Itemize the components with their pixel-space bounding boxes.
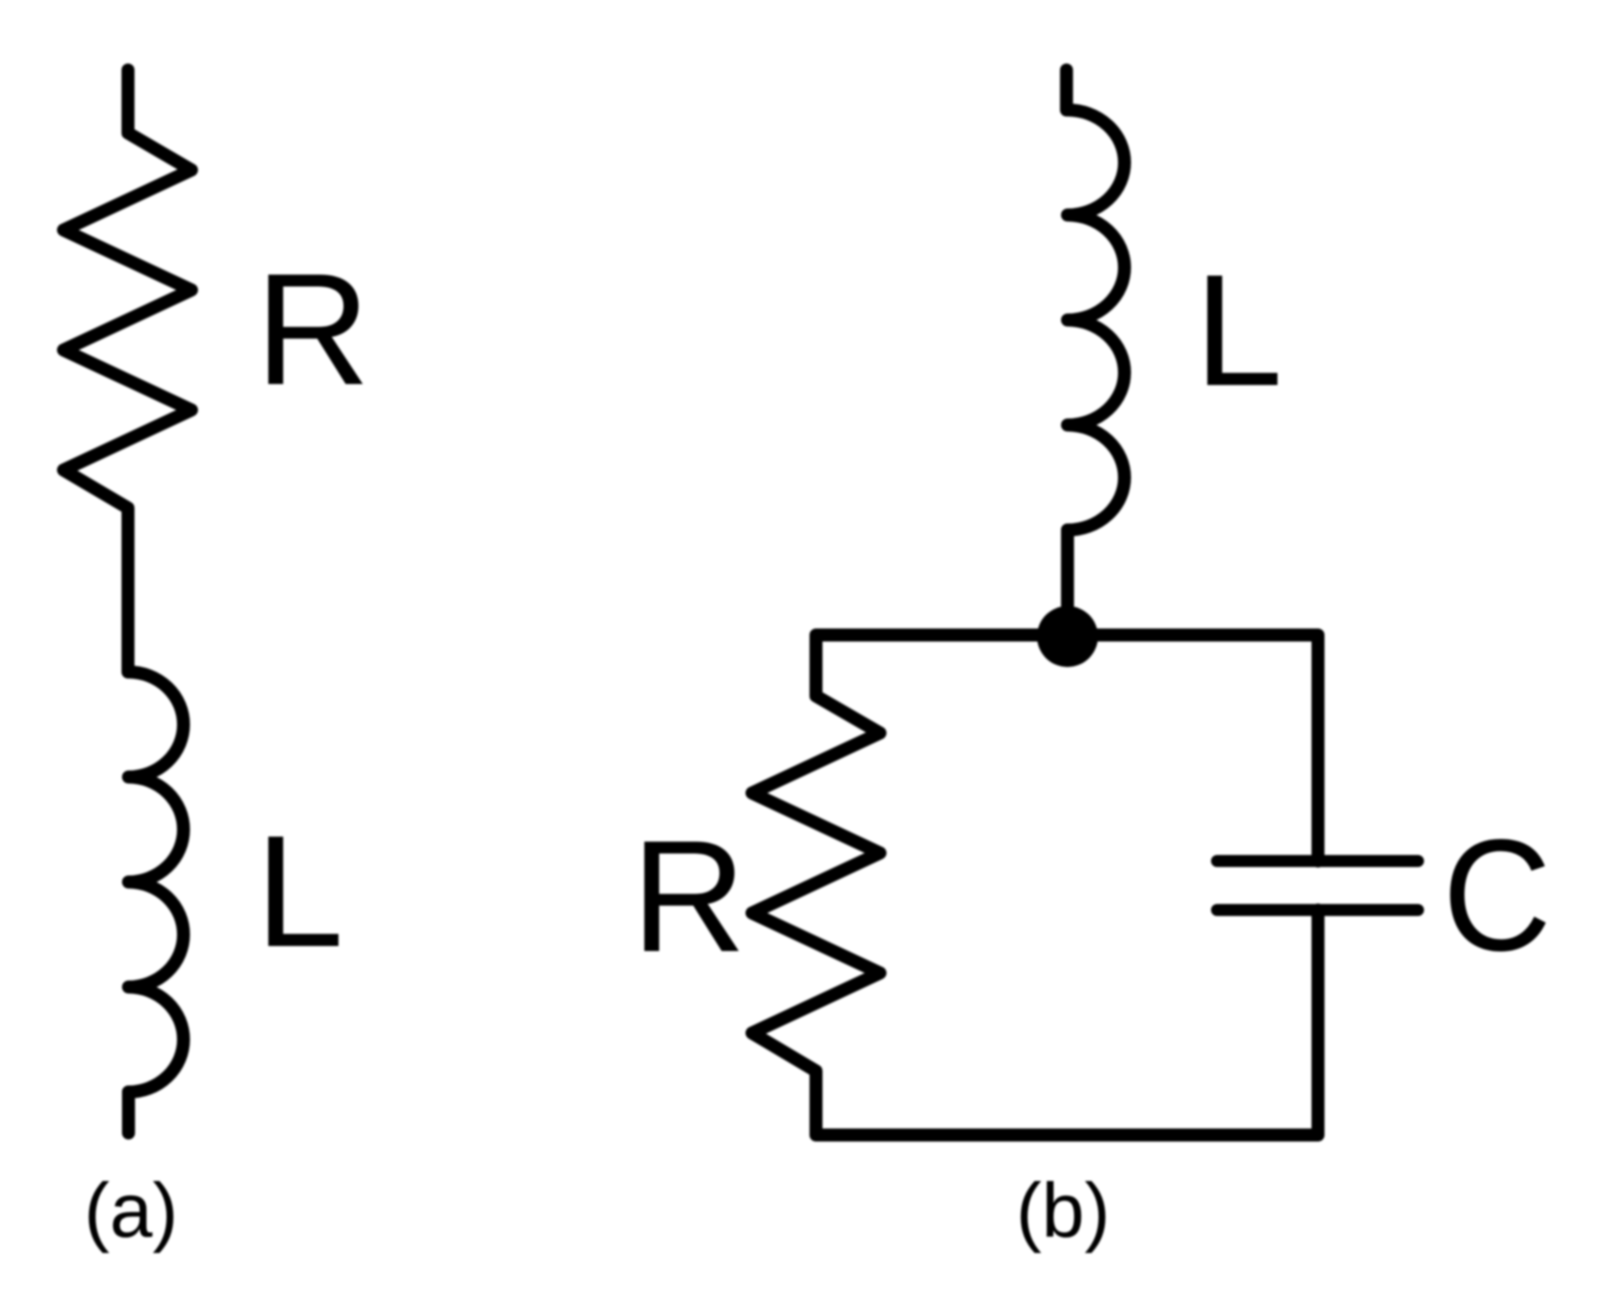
svg-text:R: R <box>255 240 370 418</box>
svg-text:R: R <box>631 807 746 985</box>
svg-text:L: L <box>255 802 343 980</box>
svg-text:(a): (a) <box>84 1168 178 1254</box>
svg-text:(b): (b) <box>1016 1168 1110 1254</box>
svg-text:L: L <box>1194 241 1282 419</box>
svg-text:C: C <box>1443 806 1552 984</box>
